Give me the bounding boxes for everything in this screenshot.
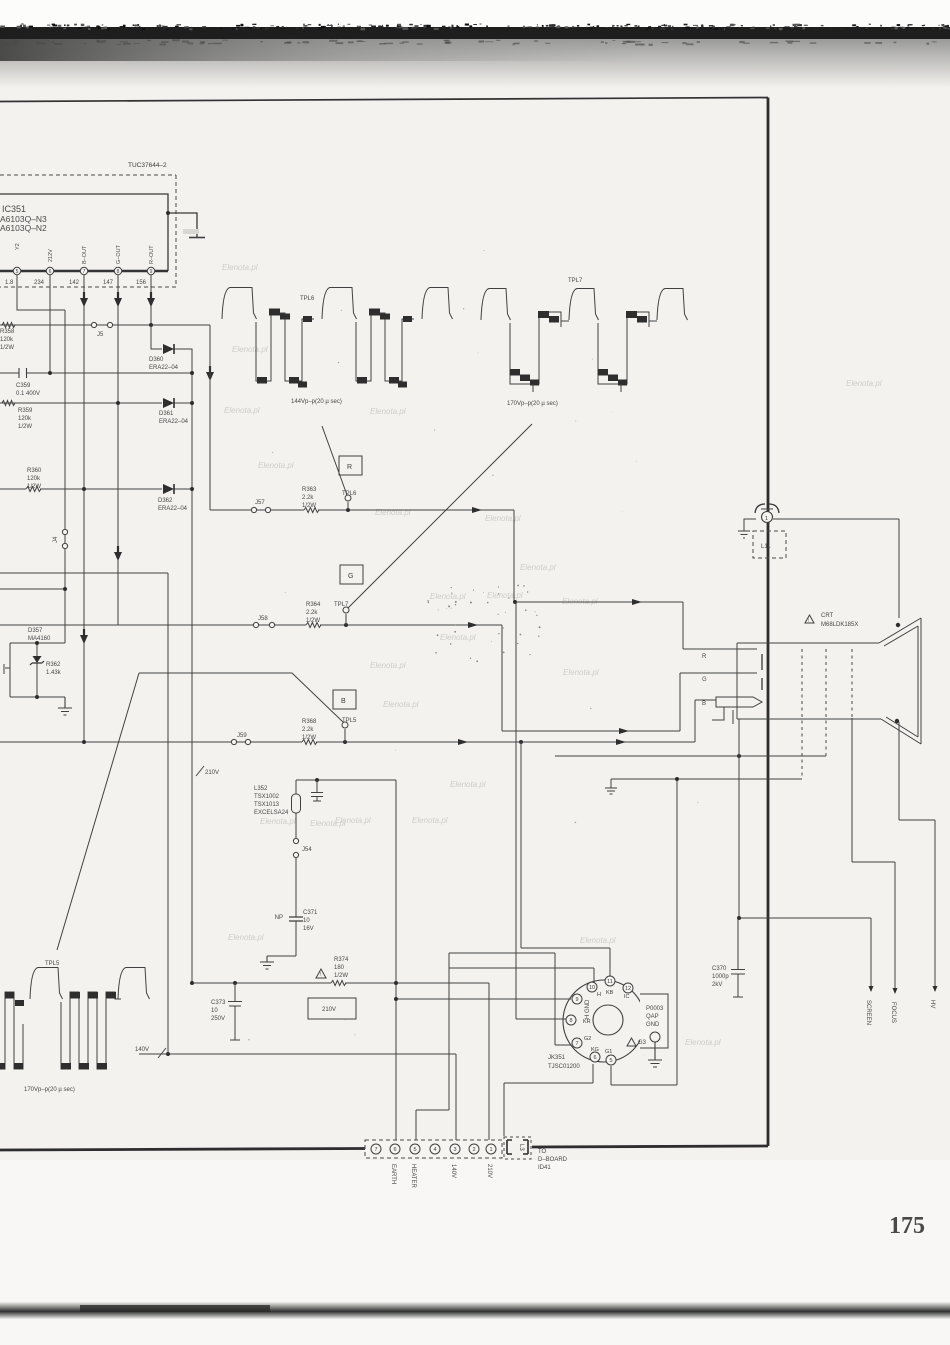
svg-text:TSX1013: TSX1013 [254, 802, 280, 808]
svg-text:7: 7 [83, 269, 86, 275]
svg-text:J57: J57 [255, 500, 265, 506]
svg-text:Elenota.pl: Elenota.pl [375, 508, 411, 517]
svg-text:Elenota.pl: Elenota.pl [440, 633, 476, 642]
svg-text:B: B [341, 698, 346, 705]
svg-text:Elenota.pl: Elenota.pl [485, 514, 521, 523]
svg-text:1/2W: 1/2W [27, 484, 41, 490]
svg-text:L11: L11 [761, 544, 771, 550]
svg-text:144Vp–p(20 µ sec): 144Vp–p(20 µ sec) [291, 399, 342, 405]
svg-text:P0003: P0003 [646, 1006, 664, 1012]
svg-text:R374: R374 [334, 957, 349, 963]
svg-text:12: 12 [625, 986, 631, 992]
svg-text:CRT: CRT [821, 613, 834, 619]
svg-text:Elenota.pl: Elenota.pl [430, 592, 466, 601]
svg-text:D361: D361 [159, 411, 174, 417]
svg-text:120k: 120k [18, 416, 32, 422]
svg-text:2: 2 [472, 1147, 475, 1153]
svg-text:Elenota.pl: Elenota.pl [563, 668, 599, 677]
svg-text:M68LDK185X: M68LDK185X [821, 622, 858, 628]
svg-text:Elenota.pl: Elenota.pl [450, 780, 486, 789]
svg-text:Elenota.pl: Elenota.pl [685, 1038, 721, 1047]
svg-text:D362: D362 [158, 498, 173, 504]
svg-text:120k: 120k [27, 476, 41, 482]
svg-text:ERA22–04: ERA22–04 [159, 419, 189, 425]
svg-text:IC: IC [624, 994, 630, 1000]
svg-text:5: 5 [609, 1058, 612, 1064]
svg-text:QAP: QAP [646, 1014, 659, 1020]
svg-text:B–OUT: B–OUT [82, 245, 88, 264]
svg-text:G–OUT: G–OUT [116, 244, 122, 264]
svg-text:J59: J59 [237, 733, 247, 739]
svg-text:142: 142 [69, 280, 80, 286]
svg-text:NP: NP [275, 915, 283, 921]
svg-text:Elenota.pl: Elenota.pl [228, 933, 264, 942]
svg-text:Elenota.pl: Elenota.pl [580, 936, 616, 945]
svg-text:140V: 140V [135, 1047, 149, 1053]
svg-text:R362: R362 [46, 662, 61, 668]
svg-text:6: 6 [593, 1055, 596, 1061]
svg-text:1.43k: 1.43k [46, 670, 62, 676]
svg-text:L3: L3 [518, 1144, 524, 1151]
svg-text:Elenota.pl: Elenota.pl [258, 461, 294, 470]
svg-text:210V: 210V [322, 1007, 336, 1013]
svg-text:1/2W: 1/2W [302, 503, 316, 509]
svg-text:234: 234 [34, 280, 45, 286]
svg-text:Elenota.pl: Elenota.pl [224, 406, 260, 415]
svg-text:R358: R358 [0, 329, 15, 335]
svg-text:2.2k: 2.2k [306, 610, 318, 616]
svg-text:9: 9 [150, 269, 153, 275]
svg-text:Elenota.pl: Elenota.pl [520, 563, 556, 572]
svg-text:R: R [347, 464, 352, 471]
svg-text:Y2: Y2 [15, 243, 21, 250]
svg-text:Elenota.pl: Elenota.pl [222, 263, 258, 272]
svg-text:C371: C371 [303, 910, 318, 916]
svg-text:Elenota.pl: Elenota.pl [370, 661, 406, 670]
svg-text:L352: L352 [254, 786, 268, 792]
svg-text:Elenota.pl: Elenota.pl [383, 700, 419, 709]
svg-text:212V: 212V [48, 249, 54, 262]
svg-text:EARTH: EARTH [390, 1164, 396, 1184]
svg-text:250V: 250V [211, 1016, 225, 1022]
svg-text:R363: R363 [302, 487, 317, 493]
svg-text:8: 8 [569, 1018, 572, 1024]
svg-text:175: 175 [889, 1213, 925, 1239]
svg-text:G: G [348, 573, 353, 580]
svg-text:!: ! [320, 972, 321, 978]
svg-text:KG: KG [591, 1047, 599, 1053]
svg-text:16V: 16V [303, 926, 314, 932]
svg-text:ID41: ID41 [538, 1165, 551, 1171]
svg-text:TPL7: TPL7 [568, 278, 583, 284]
svg-text:1/2W: 1/2W [0, 345, 14, 351]
svg-text:170Vp–p(20 µ sec): 170Vp–p(20 µ sec) [507, 401, 558, 407]
svg-text:1/2W: 1/2W [334, 973, 348, 979]
svg-text:R360: R360 [27, 468, 42, 474]
svg-text:MA4160: MA4160 [28, 636, 51, 642]
svg-text:2.2k: 2.2k [302, 727, 314, 733]
svg-text:C370: C370 [712, 966, 727, 972]
svg-text:180: 180 [334, 965, 345, 971]
svg-text:Elenota.pl: Elenota.pl [232, 345, 268, 354]
svg-text:KB: KB [606, 990, 614, 996]
svg-text:TPL6: TPL6 [300, 296, 315, 302]
svg-text:J4: J4 [53, 536, 59, 543]
svg-text:TJSC01200: TJSC01200 [548, 1064, 580, 1070]
svg-text:6: 6 [49, 269, 52, 275]
svg-text:9: 9 [575, 997, 578, 1003]
svg-text:147: 147 [103, 280, 114, 286]
svg-text:J54: J54 [302, 847, 312, 853]
svg-text:GND: GND [646, 1022, 660, 1028]
svg-text:D–BOARD: D–BOARD [538, 1157, 568, 1163]
svg-text:8: 8 [117, 269, 120, 275]
svg-text:B: B [702, 701, 706, 707]
svg-text:Elenota.pl: Elenota.pl [260, 817, 296, 826]
svg-text:Elenota.pl: Elenota.pl [412, 816, 448, 825]
svg-text:TPL6: TPL6 [342, 491, 357, 497]
svg-text:5: 5 [16, 269, 19, 275]
svg-text:H: H [597, 992, 601, 998]
svg-text:C373: C373 [211, 1000, 226, 1006]
svg-text:170Vp–p(20 µ sec): 170Vp–p(20 µ sec) [24, 1087, 75, 1093]
svg-text:IC351: IC351 [2, 204, 26, 214]
svg-text:HV: HV [929, 1000, 935, 1008]
svg-text:210V: 210V [205, 770, 219, 776]
svg-text:HEATER: HEATER [410, 1164, 416, 1189]
svg-text:Elenota.pl: Elenota.pl [846, 379, 882, 388]
svg-text:ERA22–04: ERA22–04 [158, 506, 188, 512]
svg-text:!: ! [808, 618, 809, 623]
svg-text:TPL5: TPL5 [342, 718, 357, 724]
svg-text:TUC37644–2: TUC37644–2 [128, 162, 167, 169]
svg-text:1.8: 1.8 [5, 280, 14, 286]
svg-text:D360: D360 [149, 357, 164, 363]
svg-text:3: 3 [453, 1147, 456, 1153]
svg-text:7: 7 [575, 1041, 578, 1047]
svg-text:4: 4 [433, 1147, 436, 1153]
svg-text:11: 11 [607, 979, 613, 985]
svg-text:R368: R368 [302, 719, 317, 725]
svg-text:2.2k: 2.2k [302, 495, 314, 501]
svg-text:2kV: 2kV [712, 982, 722, 988]
svg-text:A6103Q–N2: A6103Q–N2 [0, 223, 47, 233]
svg-text:210V: 210V [486, 1164, 492, 1178]
svg-text:FOCUS: FOCUS [890, 1002, 896, 1023]
svg-text:D357: D357 [28, 628, 43, 634]
svg-text:1/2W: 1/2W [306, 618, 320, 624]
svg-text:1/2W: 1/2W [302, 735, 316, 741]
svg-text:C359: C359 [16, 383, 31, 389]
svg-text:G3: G3 [638, 1040, 647, 1046]
svg-text:10: 10 [211, 1008, 218, 1014]
svg-text:R359: R359 [18, 408, 33, 414]
svg-text:J5: J5 [97, 332, 104, 338]
svg-text:G2: G2 [584, 1036, 591, 1042]
svg-text:H GND: H GND [585, 999, 591, 1019]
svg-text:R364: R364 [306, 602, 321, 608]
svg-text:G1: G1 [605, 1049, 612, 1055]
svg-text:120k: 120k [0, 337, 14, 343]
svg-text:7: 7 [374, 1147, 377, 1153]
svg-text:10: 10 [303, 918, 310, 924]
svg-text:5: 5 [413, 1147, 416, 1153]
svg-text:G: G [702, 677, 707, 683]
svg-text:6: 6 [393, 1147, 396, 1153]
svg-text:TSX1002: TSX1002 [254, 794, 280, 800]
svg-text:Elenota.pl: Elenota.pl [370, 407, 406, 416]
svg-text:EXCELSA24: EXCELSA24 [254, 810, 289, 816]
svg-text:1: 1 [489, 1147, 492, 1153]
svg-text:SCREEN: SCREEN [865, 1000, 871, 1025]
svg-text:TO: TO [538, 1149, 547, 1155]
svg-text:R: R [702, 654, 707, 660]
svg-text:140V: 140V [450, 1164, 456, 1178]
svg-text:ERA22–04: ERA22–04 [149, 365, 179, 371]
svg-text:R–OUT: R–OUT [149, 245, 155, 264]
svg-text:10: 10 [589, 985, 595, 991]
svg-text:0.1 400V: 0.1 400V [16, 391, 40, 397]
svg-text:JK351: JK351 [548, 1055, 566, 1061]
svg-text:156: 156 [136, 280, 147, 286]
svg-text:TPL5: TPL5 [45, 961, 60, 967]
svg-text:TPL7: TPL7 [334, 602, 349, 608]
svg-text:1/2W: 1/2W [18, 424, 32, 430]
svg-text:Elenota.pl: Elenota.pl [310, 819, 346, 828]
svg-text:Elenota.pl: Elenota.pl [487, 591, 523, 600]
svg-text:1000p: 1000p [712, 974, 729, 980]
svg-text:1: 1 [765, 516, 768, 522]
svg-text:J58: J58 [258, 616, 268, 622]
